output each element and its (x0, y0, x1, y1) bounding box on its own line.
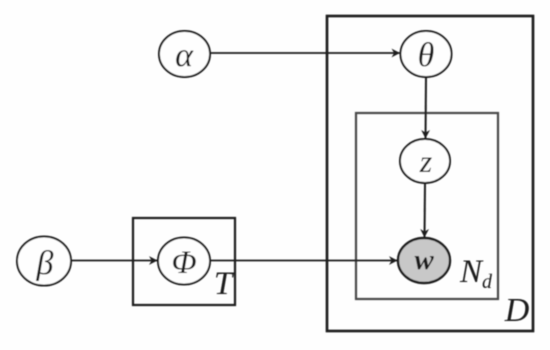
svg-text:D: D (504, 292, 530, 329)
wire z to w (424, 183, 427, 237)
svg-text:N: N (459, 254, 484, 290)
node beta (17, 237, 71, 286)
node theta (401, 31, 452, 77)
svg-text:α: α (175, 37, 194, 74)
plate D (outer document plate) (327, 16, 533, 331)
wire Phi to w (210, 260, 397, 262)
wire theta to z (425, 77, 428, 138)
plate N_d (word plate) (356, 113, 498, 299)
svg-text:w: w (414, 244, 434, 276)
svg-text:β: β (36, 245, 54, 282)
svg-text:θ: θ (418, 37, 435, 74)
svg-text:T: T (214, 266, 235, 302)
node Phi (158, 238, 210, 285)
node alpha (159, 31, 210, 77)
wire alpha to theta (210, 52, 400, 54)
svg-text:z: z (419, 143, 433, 179)
node z (400, 139, 450, 183)
node w (observed, shaded) (398, 238, 450, 283)
svg-text:d: d (482, 271, 493, 293)
plate T (topic plate) (133, 218, 235, 305)
svg-text:Φ: Φ (171, 245, 196, 281)
wire beta to Phi (71, 260, 157, 262)
